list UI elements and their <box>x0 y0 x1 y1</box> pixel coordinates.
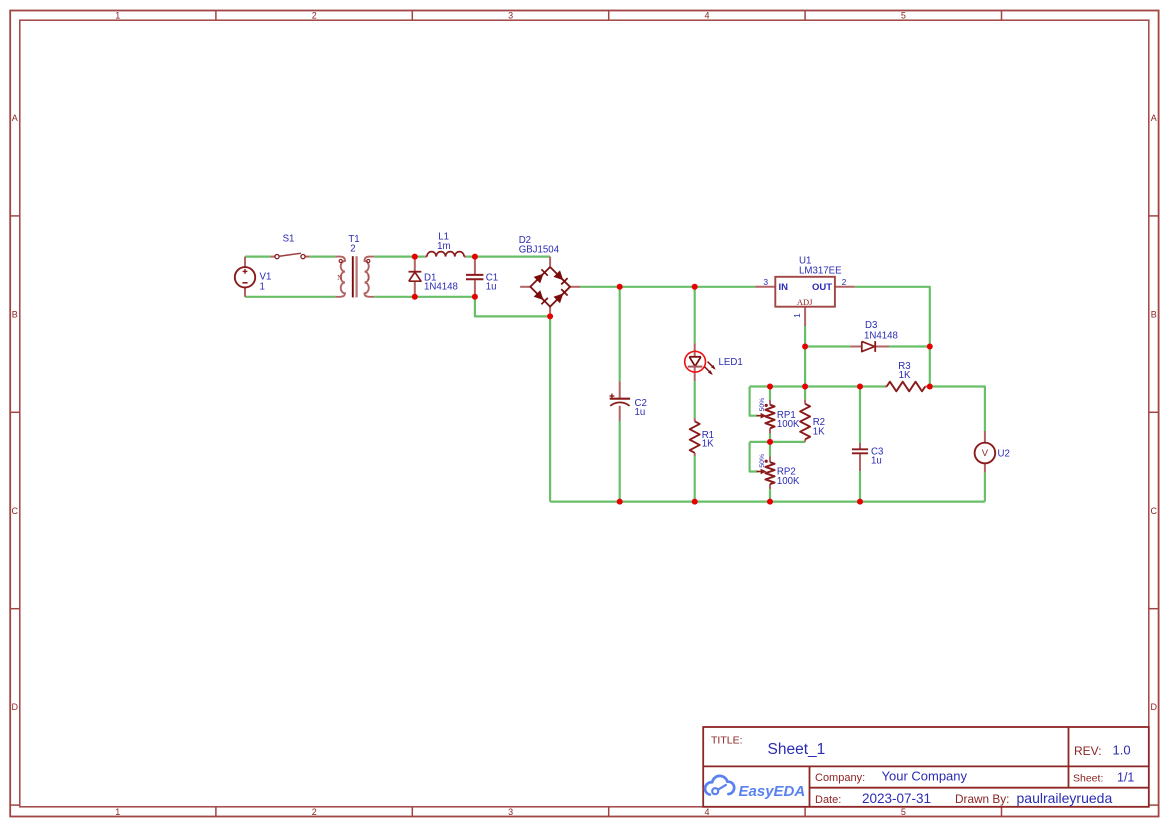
wire ADJ node to D3 <box>805 345 850 347</box>
wire C3 top <box>859 387 861 444</box>
svg-text:50%: 50% <box>759 398 766 412</box>
svg-text:3: 3 <box>763 277 768 287</box>
LED LED1 <box>685 343 716 381</box>
svg-text:S1: S1 <box>283 234 295 245</box>
svg-text:100K: 100K <box>777 476 800 487</box>
svg-text:Your Company: Your Company <box>882 769 968 784</box>
svg-text:Date:: Date: <box>815 794 841 806</box>
wire bottom rail <box>550 501 985 503</box>
capacitor C1 <box>466 257 483 297</box>
wire RP1 bottom <box>769 434 771 442</box>
wire V1 top to S1 <box>245 256 270 258</box>
wire RP2 wiper loop <box>750 442 758 472</box>
title block <box>703 727 1149 807</box>
svg-text:V: V <box>982 448 989 459</box>
potentiometer RP1 <box>757 400 775 434</box>
diode D1 <box>409 257 422 297</box>
resistor R2 <box>800 399 810 442</box>
junction dots <box>412 254 933 505</box>
wire C2 branch bottom <box>619 421 621 502</box>
svg-text:1: 1 <box>366 273 370 282</box>
svg-text:Sheet:: Sheet: <box>1073 773 1103 785</box>
svg-text:2: 2 <box>312 807 317 817</box>
svg-text:2023-07-31: 2023-07-31 <box>862 791 931 806</box>
svg-text:2: 2 <box>350 243 355 254</box>
wire U2 to bottom rail <box>984 472 986 501</box>
bridge rectifier D2 <box>520 257 580 317</box>
svg-text:Company:: Company: <box>815 772 865 784</box>
svg-text:C: C <box>12 506 19 516</box>
wire R3 to U2 <box>930 387 985 432</box>
wire D3 to OUT column <box>889 345 930 347</box>
inductor L1 <box>425 252 466 257</box>
wire RP2 bottom <box>769 489 771 502</box>
svg-text:1K: 1K <box>899 370 911 381</box>
wire C1 bottom down to bridge bottom <box>475 297 550 317</box>
svg-text:C: C <box>1151 506 1158 516</box>
wire T1 bottom to C1 (node with D1) <box>374 296 475 298</box>
svg-text:1: 1 <box>260 282 265 293</box>
wire RP2 top <box>769 442 771 457</box>
svg-text:paulraileyrueda: paulraileyrueda <box>1017 790 1113 806</box>
svg-text:LM317EE: LM317EE <box>799 266 842 277</box>
EasyEDA logo <box>705 776 734 795</box>
wire U1 ADJ down <box>804 326 806 387</box>
svg-text:Drawn By:: Drawn By: <box>955 792 1009 806</box>
polarized capacitor C2 <box>610 382 631 422</box>
svg-text:2: 2 <box>312 11 317 21</box>
svg-text:100K: 100K <box>777 419 800 430</box>
wire C2 branch top <box>619 287 621 382</box>
svg-text:ADJ: ADJ <box>797 297 813 307</box>
wire mid row to R3 <box>750 385 887 387</box>
wire LED1 branch top <box>694 287 696 343</box>
svg-text:TITLE:: TITLE: <box>711 735 743 747</box>
wire S1 to T1 <box>310 256 336 258</box>
svg-text:Sheet_1: Sheet_1 <box>768 741 826 758</box>
wire bridge bottom to ground rail <box>549 316 551 501</box>
svg-text:5: 5 <box>901 11 906 21</box>
svg-text:4: 4 <box>704 11 709 21</box>
svg-text:1K: 1K <box>813 426 825 437</box>
voltmeter U2 <box>975 431 996 472</box>
svg-text:1/1: 1/1 <box>1117 771 1134 785</box>
svg-text:IN: IN <box>779 282 789 293</box>
svg-text:2: 2 <box>842 277 847 287</box>
svg-text:LED1: LED1 <box>719 357 743 368</box>
svg-text:1m: 1m <box>437 241 450 252</box>
svg-text:1.0: 1.0 <box>1113 743 1131 758</box>
wire V1 bottom to T1 <box>245 296 335 298</box>
wire R2 top <box>804 387 806 400</box>
svg-text:EasyEDA: EasyEDA <box>739 783 806 800</box>
svg-text:3: 3 <box>508 11 513 21</box>
svg-text:1u: 1u <box>635 407 646 418</box>
svg-text:4: 4 <box>704 807 709 817</box>
wire RP1/RP2/R2 row <box>750 441 806 443</box>
wire R1 to bottom rail <box>694 456 696 502</box>
svg-text:B: B <box>1151 309 1157 319</box>
wire RP1 top <box>769 387 771 400</box>
svg-text:1: 1 <box>115 807 120 817</box>
switch S1 <box>270 253 309 259</box>
wire U1 OUT to D3/R3 column <box>855 287 930 387</box>
svg-text:U2: U2 <box>998 448 1010 459</box>
wire T1 to L1 (node with D1, top) <box>374 256 425 258</box>
svg-text:1K: 1K <box>702 439 714 450</box>
wire RP1 wiper loop <box>750 387 758 416</box>
svg-text:1u: 1u <box>486 281 497 292</box>
svg-text:5: 5 <box>901 807 906 817</box>
svg-text:D: D <box>12 702 19 712</box>
potentiometer RP2 <box>757 457 775 490</box>
svg-text:1: 1 <box>792 313 802 318</box>
svg-text:N: N <box>337 273 343 282</box>
svg-text:B: B <box>12 309 18 319</box>
wire L1 to bridge top (node with C1) <box>466 256 550 258</box>
svg-text:3: 3 <box>508 807 513 817</box>
capacitor C3 <box>852 443 868 471</box>
svg-text:REV:: REV: <box>1074 744 1102 758</box>
svg-text:1N4148: 1N4148 <box>864 330 898 341</box>
svg-text:A: A <box>1151 113 1157 123</box>
svg-text:OUT: OUT <box>812 282 832 293</box>
regulator U1 LM317EE <box>755 277 855 326</box>
transformer T1 <box>335 256 374 297</box>
svg-text:D: D <box>1151 702 1158 712</box>
resistor R1 <box>690 418 700 456</box>
diode D3 <box>850 341 889 352</box>
svg-text:50%: 50% <box>759 454 766 468</box>
voltage source V1 <box>235 257 255 297</box>
wire C3 bottom <box>859 471 861 502</box>
wire LED1 to R1 <box>694 381 696 418</box>
svg-text:1u: 1u <box>871 456 882 467</box>
svg-text:A: A <box>12 113 18 123</box>
svg-text:GBJ1504: GBJ1504 <box>519 244 560 255</box>
svg-text:1: 1 <box>115 11 120 21</box>
svg-text:1N4148: 1N4148 <box>424 281 458 292</box>
resistor R3 <box>885 382 930 392</box>
wire bridge output to U1 IN <box>580 286 755 288</box>
